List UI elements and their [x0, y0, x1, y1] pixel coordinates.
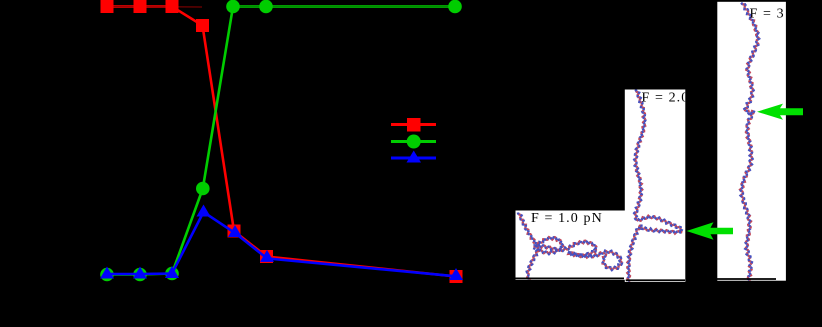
- blue markers (triangles): [100, 267, 114, 279]
- red markers (squares): [101, 0, 114, 13]
- inset 2 panel (F = 2.0): [625, 90, 686, 283]
- legend blue entry: [391, 157, 436, 160]
- svg-text:F = 2.0: F = 2.0: [642, 91, 690, 106]
- blue series line: [107, 212, 456, 276]
- inset 3 scale bar: [717, 278, 776, 280]
- legend red entry: [391, 123, 436, 126]
- svg-text:F = 3: F = 3: [750, 7, 785, 22]
- legend green entry: [391, 140, 436, 143]
- red series dark core line: [107, 6, 202, 9]
- green series line: [107, 7, 455, 275]
- inset 3 panel (F = 3): [717, 2, 786, 281]
- green markers (circles): [100, 268, 114, 282]
- green series dark core line: [233, 6, 455, 8]
- svg-text:F = 1.0 pN: F = 1.0 pN: [531, 211, 603, 226]
- green arrow into inset 2: [687, 222, 734, 239]
- inset 1 panel (F = 1.0 pN): [516, 211, 626, 280]
- inset 2 scale bar: [626, 279, 685, 281]
- red series line: [107, 7, 456, 277]
- inset 1 scale bar: [516, 277, 625, 279]
- green arrow into inset 3: [757, 104, 803, 120]
